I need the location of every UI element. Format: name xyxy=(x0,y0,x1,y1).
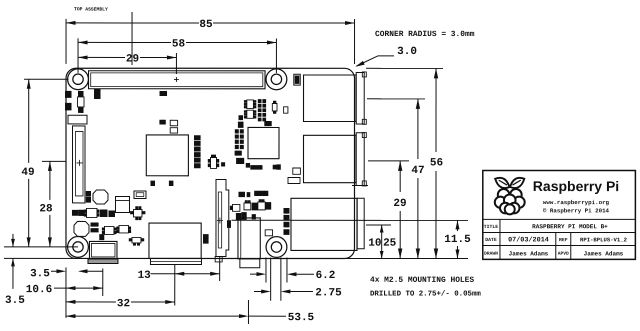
svg-text:DATE: DATE xyxy=(485,237,497,243)
title block column lines xyxy=(499,219,501,259)
USB J2 tab top xyxy=(362,133,366,138)
SoC U1 xyxy=(146,135,188,176)
dim ext line 85 left xyxy=(65,19,67,64)
svg-text:James Adams: James Adams xyxy=(509,250,549,257)
svg-text:58: 58 xyxy=(172,38,186,50)
svg-text:CORNER RADIUS = 3.0mm: CORNER RADIUS = 3.0mm xyxy=(375,30,475,39)
pad grid 2x2 xyxy=(91,223,94,226)
svg-text:10.6: 10.6 xyxy=(26,284,52,296)
svg-text:3.5: 3.5 xyxy=(30,268,50,280)
component rect left of audio xyxy=(265,230,272,236)
component U8 IC xyxy=(104,226,114,234)
title block row lines xyxy=(483,218,636,220)
component R1 small xyxy=(160,91,167,95)
dim ext line mounting hole row bottom xyxy=(4,246,78,248)
dim ext line uUSB centre xyxy=(102,268,104,296)
pads left of D1 xyxy=(86,192,90,197)
dim ext line audio centre 53.5 xyxy=(247,300,249,324)
pad column right of U5 xyxy=(258,100,261,103)
dimension 56 xyxy=(435,68,437,152)
component C3 xyxy=(170,128,177,133)
pads right of CSI bottom xyxy=(227,221,230,224)
svg-text:TITLE: TITLE xyxy=(484,224,499,230)
component beside top-right hole xyxy=(294,74,300,85)
dimension 49 xyxy=(28,79,30,163)
raspberry logo leaves xyxy=(495,178,509,188)
svg-text:32: 32 xyxy=(117,298,130,310)
component pair below-left of LAN xyxy=(237,158,240,163)
dim ext line HDMI centre xyxy=(174,265,176,306)
dim ext line DSI centre left for 28 xyxy=(42,160,66,162)
svg-text:10: 10 xyxy=(368,238,381,250)
dimension 58 xyxy=(78,41,171,43)
svg-text:Raspberry Pi: Raspberry Pi xyxy=(533,178,619,194)
svg-text:DRAWN: DRAWN xyxy=(484,251,498,257)
svg-text:47: 47 xyxy=(411,165,424,177)
svg-text:28: 28 xyxy=(39,203,53,215)
svg-text:11.5: 11.5 xyxy=(444,234,471,246)
dimension 85 xyxy=(66,22,199,24)
dimension 2.75 xyxy=(254,290,262,292)
audio/video jack body xyxy=(238,218,260,259)
dimension 28 xyxy=(49,161,51,200)
component Q1 vertical regulator xyxy=(78,97,85,107)
svg-text:3.0: 3.0 xyxy=(397,46,417,58)
dim ext line top hole row left xyxy=(24,78,69,80)
component X2 4-pin xyxy=(133,209,142,217)
pads below CSI right xyxy=(236,213,240,220)
component row y205 no4 xyxy=(258,202,265,210)
svg-text:6.2: 6.2 xyxy=(316,270,336,282)
dimension 29 top xyxy=(78,56,125,58)
svg-text:53.5: 53.5 xyxy=(288,312,315,324)
dimension 29 right xyxy=(399,161,401,192)
board bottom edge extended xyxy=(4,257,468,259)
GPIO centre mark xyxy=(174,78,179,80)
USB J1 tab bottom xyxy=(362,119,366,124)
dimension 10.25 xyxy=(381,225,383,259)
CSI bottom tab xyxy=(215,256,222,262)
component pad A1 xyxy=(66,91,72,97)
pad row below LAN xyxy=(246,163,249,167)
HDMI connector J4 body xyxy=(149,223,201,258)
dim ext line 58 right hole xyxy=(275,38,277,72)
USB J2 tab bottom xyxy=(362,181,366,186)
component R3 xyxy=(239,116,243,120)
DSI centre mark xyxy=(77,162,83,164)
component C2 xyxy=(170,120,177,126)
dim ext line 10.25 ethernet centre xyxy=(366,224,391,226)
USB J2 overhang xyxy=(356,133,364,186)
mounting hole H1 xyxy=(68,69,89,90)
svg-text:3.5: 3.5 xyxy=(5,295,25,307)
dim ext line CSI centre xyxy=(219,256,221,281)
dim ext line 58 left hole xyxy=(77,38,79,72)
octagon component D1 xyxy=(93,190,108,204)
dim ext line 29 right xyxy=(368,160,409,162)
dim ext line 85 right xyxy=(354,19,356,64)
svg-text:4x M2.5 MOUNTING HOLES: 4x M2.5 MOUNTING HOLES xyxy=(370,276,474,285)
component row y205 no5 xyxy=(266,203,271,210)
svg-text:© Raspberry Pi 2014: © Raspberry Pi 2014 xyxy=(543,207,610,214)
svg-text:29: 29 xyxy=(393,198,406,210)
svg-text:13: 13 xyxy=(138,270,152,282)
dimension 47 xyxy=(417,99,419,159)
svg-text:56: 56 xyxy=(430,157,443,169)
component pad A2 xyxy=(66,103,72,110)
component U7 IC xyxy=(86,208,97,217)
USB J1 tab top xyxy=(362,72,366,77)
micro USB power connector body xyxy=(89,241,117,259)
mounting hole H2 xyxy=(266,69,287,90)
svg-text:2.75: 2.75 xyxy=(315,287,342,299)
component above ethernet 2 xyxy=(288,177,300,183)
pads below SoC xyxy=(151,181,155,185)
svg-text:29: 29 xyxy=(126,53,139,65)
mounting hole H4 xyxy=(266,237,287,258)
audio jack bottom flange xyxy=(240,259,260,268)
component row y205 no1 xyxy=(232,204,239,211)
mounting hole H3 xyxy=(68,237,89,258)
board outline xyxy=(66,68,355,258)
component above ethernet 1 xyxy=(293,168,301,174)
svg-text:07/03/2014: 07/03/2014 xyxy=(508,236,549,244)
component R2 tiny xyxy=(222,163,225,166)
component U9 IC xyxy=(119,225,129,233)
dim ext line board top-right for 56 xyxy=(366,67,443,69)
component row y190 xyxy=(239,192,245,196)
dimension 3.5 left vertical xyxy=(12,234,14,247)
component C1 pair xyxy=(95,89,101,94)
USB connector stack J1 body xyxy=(304,75,357,122)
pad grid left of LAN chip xyxy=(235,130,238,133)
USB connector stack J2 body xyxy=(303,135,356,182)
dim ext line hole pad left 6.2 xyxy=(265,257,267,282)
dim ext line 47 (ethernet top ref) xyxy=(367,98,425,100)
leader 3.0 xyxy=(357,56,379,66)
dim ext line 11.5 xyxy=(231,219,468,221)
dim ext line hole pad right 6.2 xyxy=(286,257,288,282)
raspberry logo berry xyxy=(498,189,510,201)
component left of LAN xyxy=(235,151,241,155)
CSI camera connector xyxy=(216,179,229,256)
component C4 xyxy=(284,107,288,113)
pad column left of ethernet xyxy=(284,208,289,213)
component tiny y236 xyxy=(100,235,104,240)
svg-text:James Adams: James Adams xyxy=(584,250,624,257)
svg-text:APVD: APVD xyxy=(558,251,569,257)
pad tiny y215 xyxy=(252,215,255,219)
component row y205 no3 xyxy=(252,203,257,210)
dim ext line board left edge bottom xyxy=(65,267,67,318)
USB J1 overhang xyxy=(356,73,364,125)
raspberry logo leaf veins xyxy=(499,180,507,185)
GPIO header J8 xyxy=(89,71,266,89)
Ethernet overhang xyxy=(357,198,364,248)
dim ext line hole drill left 2.75 xyxy=(270,257,272,300)
component U3 wide rect xyxy=(68,115,87,124)
capacitor C6 cylinder xyxy=(115,196,129,212)
component pair R5 xyxy=(265,121,268,125)
dim ext line hole drill right 2.75 xyxy=(280,257,282,300)
pad row of four xyxy=(255,191,258,195)
svg-text:85: 85 xyxy=(199,19,213,31)
svg-text:RPI-BPLUS-V1_2: RPI-BPLUS-V1_2 xyxy=(580,236,628,243)
pads right of HDMI xyxy=(203,235,208,239)
component y210 c xyxy=(109,211,115,217)
micro USB flange xyxy=(88,259,118,264)
CSI centre mark xyxy=(217,219,223,221)
dim ext line 29 top GPIO centre xyxy=(175,53,177,74)
DSI display connector xyxy=(72,126,85,203)
Ethernet jack J3 body xyxy=(291,198,357,250)
component row y210 a xyxy=(72,210,77,215)
HDMI bottom flange xyxy=(150,258,201,264)
dim ext line usb2 bottom xyxy=(352,185,368,187)
dimension 11.5 xyxy=(456,220,458,231)
svg-text:www.raspberrypi.org: www.raspberrypi.org xyxy=(543,199,610,206)
component C7 rect xyxy=(134,191,146,199)
component U5 IC with pins xyxy=(247,100,254,109)
svg-text:DRILLED TO 2.75+/- 0.05mm: DRILLED TO 2.75+/- 0.05mm xyxy=(370,291,481,299)
svg-text:49: 49 xyxy=(21,167,34,179)
leader TOP ASSEMBLY xyxy=(131,12,133,65)
component Y1 crystal xyxy=(272,103,277,111)
LAN/USB chip U2 xyxy=(248,127,279,158)
component row y205 no2 xyxy=(244,203,251,210)
dimension 6.2 xyxy=(250,273,258,275)
svg-text:TOP ASSEMBLY: TOP ASSEMBLY xyxy=(74,6,108,12)
octagon component D2 xyxy=(74,221,89,236)
svg-text:RASPBERRY PI MODEL B+: RASPBERRY PI MODEL B+ xyxy=(532,223,608,230)
dimension 53.5 xyxy=(66,315,239,317)
title block frame xyxy=(483,170,636,259)
svg-text:REF: REF xyxy=(559,237,568,243)
component R4 xyxy=(238,122,243,127)
svg-text:25: 25 xyxy=(383,238,397,250)
component U4 right of SoC xyxy=(210,157,216,168)
component X3 xyxy=(132,237,141,243)
component y210 b xyxy=(100,210,107,217)
SoC side pad column xyxy=(195,136,201,140)
component U6 IC with pins xyxy=(247,110,254,118)
component pair above SoC xyxy=(160,120,163,124)
